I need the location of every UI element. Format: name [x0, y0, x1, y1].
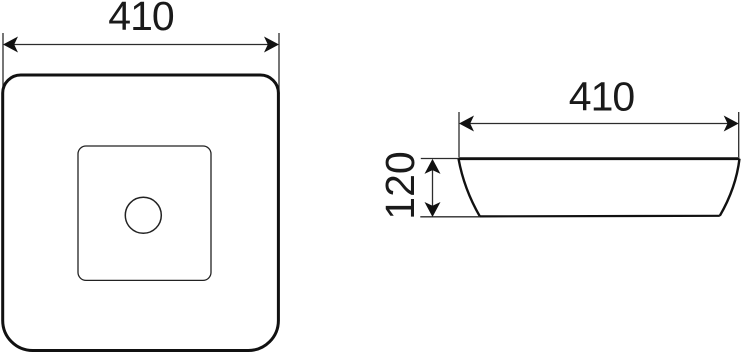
svg-text:410: 410	[569, 74, 635, 120]
svg-text:410: 410	[108, 0, 174, 39]
svg-text:120: 120	[377, 151, 423, 219]
